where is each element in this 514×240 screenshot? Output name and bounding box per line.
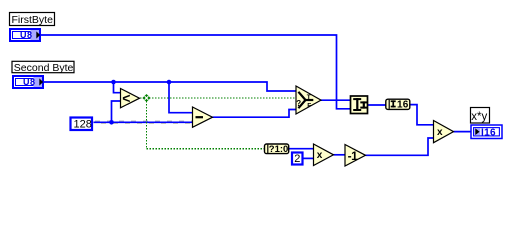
svg-text:?: ? [296,99,301,108]
svg-text:U8: U8 [20,30,33,40]
svg-text:16: 16 [397,100,409,111]
svg-text:128: 128 [74,119,92,131]
svg-text:T: T [307,94,311,101]
svg-text:?1:0: ?1:0 [269,144,289,155]
svg-text:2: 2 [294,153,300,165]
svg-text:-1: -1 [348,149,358,163]
svg-text:F: F [307,103,311,110]
svg-text:x*y: x*y [471,111,487,123]
svg-text:<: < [122,90,130,106]
svg-text:Second Byte: Second Byte [14,62,74,74]
svg-text:U8: U8 [23,77,36,87]
svg-text:x: x [437,127,443,138]
svg-text:I16: I16 [481,127,496,138]
svg-text:FirstByte: FirstByte [12,14,54,26]
svg-text:x: x [317,150,323,161]
